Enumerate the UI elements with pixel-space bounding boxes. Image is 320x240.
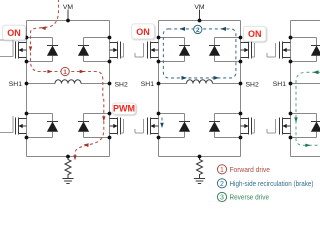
diode D7 body diode of Q7	[159, 114, 191, 138]
diode D4 body diode of Q4	[78, 114, 110, 138]
wire: green reverse-drive current path	[296, 72, 320, 145]
inductor motor winding bridge1	[55, 80, 81, 84]
svg-text:Reverse drive: Reverse drive	[230, 193, 270, 202]
label ON for Q1	[3, 25, 26, 40]
svg-text:ON: ON	[7, 28, 21, 38]
svg-text:2: 2	[220, 181, 224, 188]
transistor Q5 bridge2 high-side left	[135, 42, 159, 59]
transistor Q2 bridge1 high-side right	[110, 42, 124, 59]
label PWM for Q4	[112, 103, 135, 114]
blue mini arrow at Q7	[161, 118, 163, 122]
green path arrowheads	[294, 70, 318, 147]
resistor sense R1 with ground symbol	[62, 157, 73, 184]
node circled 1 marker (forward drive)	[61, 67, 69, 76]
svg-text:ON: ON	[248, 29, 262, 39]
legend item 3: reverse drive	[217, 192, 269, 201]
svg-text:Forward drive: Forward drive	[230, 165, 271, 174]
svg-text:ON: ON	[136, 27, 150, 37]
transistor Q1 bridge1 high-side left	[0, 40, 27, 59]
svg-text:High-side recirculation (brake: High-side recirculation (brake)	[230, 179, 314, 188]
wire: bridge1 SH1-SH2 wire	[27, 83, 110, 85]
wire: bridge2 top rail	[159, 20, 241, 22]
svg-text:SH1: SH1	[141, 81, 154, 88]
wire: bridge3 left leg	[290, 21, 292, 157]
svg-text:SH1: SH1	[9, 81, 22, 88]
blue path arrowheads	[180, 27, 227, 80]
wire: bridge1 bottom rail	[27, 156, 110, 158]
red path arrowheads	[29, 26, 106, 160]
transistor Q8 bridge2 low-side right	[241, 118, 255, 135]
wire: bridge1 top rail	[27, 20, 110, 22]
svg-text:2: 2	[196, 27, 200, 34]
diode D6 body diode of Q6	[209, 38, 241, 62]
wire: bridge3 bottom rail (cropped)	[291, 156, 320, 158]
svg-text:VM: VM	[194, 4, 205, 11]
svg-text:VM: VM	[63, 4, 74, 11]
wire: bridge2 right leg	[240, 21, 242, 157]
diode D11 body diode of Q11	[291, 114, 320, 138]
transistor Q4 bridge1 low-side right	[110, 118, 124, 135]
wire: bridge1 left leg	[26, 21, 28, 157]
node junction dots bridge2 left leg	[157, 36, 161, 140]
transistor Q7 bridge2 low-side left	[135, 118, 159, 135]
wire: blue high-side recirculation loop	[163, 29, 236, 78]
diode D1 body diode of Q1	[27, 38, 59, 62]
wire: bridge2 bottom rail	[159, 156, 241, 158]
node VM bridge2	[199, 10, 201, 21]
transistor Q9 bridge3 high-side left	[267, 42, 291, 59]
diode D2 body diode of Q2	[78, 38, 110, 62]
svg-text:PWM: PWM	[113, 103, 135, 113]
node circled 2 marker (brake)	[194, 25, 202, 34]
node VM bridge1	[67, 10, 69, 21]
legend item 1: forward drive	[217, 165, 270, 174]
diode D5 body diode of Q5	[159, 38, 191, 62]
node junction dots bridge1 right leg	[108, 36, 112, 140]
wire: bridge1 right leg	[109, 21, 111, 157]
svg-text:SH2: SH2	[115, 81, 128, 88]
transistor Q6 bridge2 high-side right	[241, 42, 255, 59]
svg-text:1: 1	[63, 69, 67, 76]
svg-text:3: 3	[220, 195, 224, 202]
transistor Q3 bridge1 low-side left	[0, 116, 27, 135]
node junction dots bridge2 right leg	[239, 36, 243, 140]
label ON for Q5	[132, 24, 155, 39]
svg-text:SH2: SH2	[246, 81, 259, 88]
label ON for Q6	[243, 26, 266, 41]
diode D8 body diode of Q8	[209, 114, 241, 138]
node junction dots bridge1 left leg	[25, 36, 29, 140]
inductor motor winding bridge2	[187, 80, 213, 84]
wire: red forward-drive current path	[30, 0, 103, 157]
diode D9 body diode of Q9	[291, 38, 320, 62]
svg-text:1: 1	[220, 167, 224, 174]
diode D3 body diode of Q3	[27, 114, 59, 138]
wire: bridge3 top rail (cropped)	[291, 20, 320, 22]
wire: bridge2 SH1-SH2 wire	[159, 83, 241, 85]
transistor Q11 bridge3 low-side left	[267, 118, 291, 135]
legend item 2: high-side recirculation (brake)	[217, 179, 313, 188]
svg-text:SH1: SH1	[273, 81, 286, 88]
node junction dots bridge3 left leg	[289, 36, 293, 140]
wire: bridge2 left leg	[158, 21, 160, 157]
wire: bridge3 SH1 wire (cropped)	[291, 83, 320, 85]
resistor sense R2 with ground symbol	[194, 157, 205, 184]
